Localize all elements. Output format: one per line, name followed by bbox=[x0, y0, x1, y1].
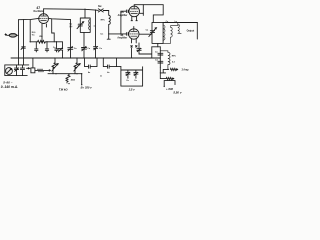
capacitor C9 grid V2 bbox=[126, 10, 129, 13]
node bus fil-a bbox=[84, 57, 85, 58]
wire key to drop bbox=[103, 10, 108, 12]
tank L2/C11 (PA tank) bbox=[149, 22, 165, 43]
capacitor C13 bbox=[158, 47, 163, 67]
resistor R9 box bbox=[31, 68, 35, 73]
svg-text:Sw: Sw bbox=[98, 5, 102, 8]
arrow meter out bbox=[27, 68, 30, 69]
wire right caps feed bbox=[152, 46, 161, 48]
node bus fil bbox=[132, 57, 133, 58]
meter M1 bbox=[6, 68, 13, 75]
pins V3 bbox=[132, 39, 137, 43]
node bus right2 bbox=[159, 57, 160, 58]
node C5 bus bbox=[62, 57, 63, 58]
svg-text:Ca: Ca bbox=[126, 80, 129, 82]
capacitor C10 grid V3 bbox=[126, 33, 129, 36]
capacitor C20 screen bypass bbox=[68, 20, 73, 58]
svg-text:4o: 4o bbox=[88, 71, 91, 74]
node B+350 bbox=[81, 84, 82, 85]
capacitor C3 bbox=[55, 42, 58, 52]
node lower pot1 bbox=[55, 73, 56, 74]
svg-text:0–140 m.A.: 0–140 m.A. bbox=[1, 85, 18, 89]
svg-text:6.3: 6.3 bbox=[172, 62, 176, 64]
node C7 bus bbox=[83, 57, 84, 58]
wire output right bbox=[196, 23, 198, 40]
svg-text:4kΩ: 4kΩ bbox=[71, 78, 75, 81]
wire top link bbox=[134, 5, 163, 23]
svg-text:Ca: Ca bbox=[74, 48, 77, 50]
svg-text:Ca: Ca bbox=[99, 48, 102, 50]
capacitor C4 on v2 bbox=[21, 47, 25, 50]
wire main bus bbox=[11, 57, 160, 59]
svg-text:47: 47 bbox=[36, 6, 40, 10]
wire pin V3 to bus bbox=[131, 48, 133, 58]
svg-text:5–80 ~: 5–80 ~ bbox=[3, 80, 13, 84]
inductor RFC2 bbox=[160, 51, 170, 70]
wire tank1 bottom bbox=[83, 32, 85, 47]
svg-text:5,50 v: 5,50 v bbox=[173, 91, 181, 95]
node bus pot1 bbox=[54, 57, 55, 58]
node bus v1 bbox=[18, 57, 19, 58]
node C20 bus bbox=[70, 57, 71, 58]
node R1 mid bbox=[46, 41, 47, 42]
capacitor C8 (rail bypass) bbox=[94, 10, 98, 58]
wire tank1 top bbox=[84, 9, 86, 18]
svg-text:Amplifier: Amplifier bbox=[117, 37, 127, 40]
svg-text:Cw: Cw bbox=[155, 59, 158, 61]
wire vertical v3 bbox=[29, 20, 31, 42]
wire meter loop bbox=[5, 65, 29, 76]
capacitor C16 bbox=[126, 70, 130, 78]
resistor R2 + arrow bbox=[170, 68, 178, 70]
svg-text:2,5 v: 2,5 v bbox=[128, 87, 135, 91]
wire meter feed2 bbox=[23, 58, 25, 65]
tube V3 (46 amplifier bottom) bbox=[129, 29, 139, 39]
svg-text:46: 46 bbox=[120, 10, 124, 14]
svg-text:250: 250 bbox=[39, 36, 43, 38]
tank L1/C6 (osc plate tank) bbox=[77, 18, 90, 32]
wire side drop V1 bbox=[52, 19, 55, 42]
node rail-tank1 bbox=[84, 9, 85, 10]
svg-text:Tm: Tm bbox=[32, 35, 35, 37]
node R1 right bbox=[56, 41, 57, 42]
node bus right1 bbox=[150, 57, 151, 58]
svg-text:T.M kΩ: T.M kΩ bbox=[59, 87, 69, 91]
wire plate V2 bbox=[140, 5, 144, 16]
node plate V2 bbox=[143, 13, 144, 14]
node R1 left bbox=[30, 41, 31, 42]
node R8 bottom bbox=[68, 83, 69, 84]
wire screen lead V1 bbox=[49, 18, 70, 19]
svg-text:RFC: RFC bbox=[101, 19, 106, 21]
crystal X1 bbox=[7, 33, 19, 37]
wire RFC2 bottom left bbox=[160, 69, 168, 73]
wire stub V3 top bbox=[133, 27, 135, 29]
resistor R1 (grid leak) bbox=[30, 40, 62, 43]
resistor R10 + arrow bbox=[35, 69, 51, 71]
inductor L4 (antenna coil) bbox=[178, 23, 181, 34]
svg-text:Cm: Cm bbox=[100, 34, 103, 36]
svg-text:Ca: Ca bbox=[87, 48, 90, 50]
capacitor C12 bbox=[137, 43, 152, 58]
node lower pot2 bbox=[76, 73, 77, 74]
node bus v2 bbox=[23, 57, 24, 58]
svg-text:46: 46 bbox=[120, 33, 124, 37]
svg-text:B+ 350 v: B+ 350 v bbox=[81, 85, 92, 89]
wire B+ bracket bbox=[164, 81, 175, 87]
wire plate stub V1 bbox=[43, 9, 45, 14]
capacitor C1 bbox=[35, 42, 38, 52]
wire B+350 drop bbox=[81, 74, 83, 85]
capacitor C18 bbox=[14, 65, 18, 76]
node bus pot2 bbox=[76, 57, 77, 58]
wire vertical v1 bbox=[18, 20, 20, 58]
wire output top bus bbox=[163, 22, 197, 24]
pins V1 bbox=[42, 24, 46, 42]
wire grid line V1 bbox=[19, 18, 40, 19]
svg-text:(m): (m) bbox=[69, 26, 72, 28]
wire plate rail bbox=[44, 9, 99, 11]
capacitor C15a bbox=[89, 65, 91, 68]
wire grid feed 46s bbox=[109, 11, 127, 34]
wire filament inner bus bbox=[121, 69, 143, 71]
node rail-bypass bbox=[95, 9, 96, 10]
potentiometer R6 bbox=[52, 58, 58, 74]
wire lower bus bbox=[48, 73, 82, 75]
svg-text:2 Amp: 2 Amp bbox=[182, 69, 190, 72]
switch Sw (key) bbox=[98, 9, 103, 12]
capacitor C17 bbox=[134, 70, 138, 78]
node lower right bbox=[81, 73, 82, 74]
capacitor C7 bbox=[82, 46, 87, 58]
capacitor C2 bbox=[45, 42, 48, 52]
wire plate V3 to tank2 bbox=[139, 33, 152, 35]
svg-text:RFC: RFC bbox=[172, 55, 177, 57]
node B+ bbox=[164, 86, 165, 87]
wire filament run bbox=[85, 58, 121, 67]
inductor RFC1 on keyed line bbox=[107, 11, 110, 40]
tube V1 (47 oscillator) bbox=[39, 14, 49, 24]
inductor L3 (link coil) bbox=[163, 26, 178, 44]
marks filament V3 bbox=[131, 46, 137, 48]
capacitor C15b bbox=[108, 65, 110, 68]
filament bracket left bbox=[120, 67, 122, 87]
filament bracket right bbox=[142, 67, 144, 86]
wire R9 top bbox=[32, 58, 34, 68]
wire vertical v2 bbox=[23, 20, 25, 59]
svg-text:Oscillator: Oscillator bbox=[33, 10, 44, 13]
terminal antenna post bbox=[5, 34, 7, 36]
capacitor C14 bbox=[158, 61, 163, 63]
capacitor C5 bypass bbox=[58, 42, 63, 58]
capacitor C19 bbox=[20, 65, 24, 76]
svg-text:Ca: Ca bbox=[134, 80, 137, 82]
svg-text:+ 600: + 600 bbox=[166, 87, 174, 91]
wire meter feed1 bbox=[18, 58, 20, 65]
tube V2 (46 amplifier top) bbox=[129, 6, 140, 17]
svg-text:Ca: Ca bbox=[146, 29, 149, 31]
resistor R8 bleeder bbox=[66, 74, 70, 83]
node C8 bus bbox=[95, 57, 96, 58]
svg-text:Amplifier: Amplifier bbox=[118, 14, 128, 17]
svg-text:4o: 4o bbox=[107, 71, 110, 74]
svg-text:Output: Output bbox=[187, 29, 195, 32]
node bus fil-b bbox=[103, 57, 104, 58]
wire bracket bottom bbox=[121, 85, 143, 87]
node RFC2 bottom bbox=[168, 69, 169, 70]
pins V2 bbox=[131, 16, 137, 20]
node keyline-grid bbox=[108, 33, 109, 34]
wire tank2 bottom drop bbox=[157, 43, 159, 46]
resistor R3 + arrow bbox=[166, 78, 174, 80]
svg-text:A: A bbox=[100, 74, 102, 77]
potentiometer R7 bbox=[74, 58, 80, 74]
wire bias drop bbox=[160, 67, 166, 78]
